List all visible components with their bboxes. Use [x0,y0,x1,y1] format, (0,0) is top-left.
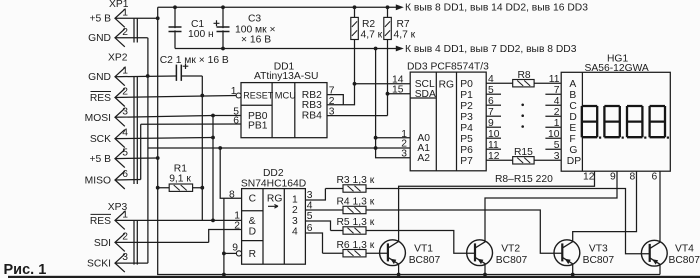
svg-text:R8–R15 220: R8–R15 220 [495,174,553,185]
svg-text:3: 3 [122,252,128,263]
svg-text:3: 3 [292,216,298,227]
svg-text:6: 6 [488,96,494,107]
svg-text:+5 В: +5 В [90,154,112,165]
svg-text:11: 11 [488,140,499,151]
svg-text:9: 9 [488,118,494,129]
svg-text:SCKI: SCKI [87,259,111,270]
svg-text:SN74HC164D: SN74HC164D [241,178,306,189]
svg-text:F: F [569,134,575,145]
svg-text:C: C [569,101,577,112]
svg-text:2: 2 [292,205,298,216]
svg-text:3: 3 [554,151,560,162]
svg-text:5: 5 [307,211,313,222]
svg-text:SA56-12GWA: SA56-12GWA [585,63,649,74]
svg-text:4: 4 [307,200,313,211]
svg-text:8: 8 [630,171,636,182]
svg-text:1: 1 [554,118,560,129]
svg-text:R3 1,3 к: R3 1,3 к [337,175,375,186]
svg-text:SCK: SCK [90,134,111,145]
svg-text:5: 5 [122,148,128,159]
svg-text:2: 2 [122,231,128,242]
svg-text:7: 7 [488,107,494,118]
svg-text:5: 5 [488,85,494,96]
svg-text:VT2: VT2 [501,243,520,254]
svg-text:P0: P0 [460,79,473,90]
svg-text:R15: R15 [514,147,533,158]
svg-text:RES: RES [90,93,111,104]
svg-text:G: G [569,145,577,156]
svg-text:К выв 4 DD1, выв 7 DD2, выв: К выв 4 DD1, выв 7 DD2, выв 8 DD3 [405,44,577,55]
svg-text:XP2: XP2 [108,53,128,64]
svg-text:P4: P4 [460,123,473,134]
svg-text:1: 1 [122,66,128,77]
svg-text:11: 11 [549,74,560,85]
svg-text:P3: P3 [460,112,473,123]
svg-text:B: B [569,90,576,101]
svg-text:R4 1,3 к: R4 1,3 к [337,197,375,208]
svg-text:E: E [569,123,576,134]
svg-text:4: 4 [488,74,494,85]
svg-text:C3: C3 [248,14,261,25]
svg-text:D: D [249,227,256,238]
svg-text:P5: P5 [460,134,473,145]
svg-text:A: A [569,79,576,90]
svg-text:DD2: DD2 [263,168,284,179]
svg-text:10: 10 [548,129,560,140]
svg-text:2: 2 [122,87,128,98]
svg-text:2: 2 [234,220,240,231]
svg-text:BC807: BC807 [409,255,441,266]
svg-text:DD3 PCF8574T/3: DD3 PCF8574T/3 [407,62,489,73]
svg-text:3: 3 [122,106,128,117]
svg-text:100 н: 100 н [188,29,214,40]
svg-text:К выв 8 DD1, выв 14 DD2, выв: К выв 8 DD1, выв 14 DD2, выв 16 DD3 [405,3,588,14]
svg-text:5: 5 [554,140,560,151]
svg-text:P2: P2 [460,101,473,112]
svg-text:P7: P7 [460,156,473,167]
svg-text:× 16 В: × 16 В [241,35,271,46]
svg-text:1: 1 [122,7,128,18]
svg-text:P1: P1 [460,90,473,101]
svg-text:R8: R8 [518,70,531,81]
svg-text:4: 4 [122,128,128,139]
svg-text:6: 6 [652,171,658,182]
svg-text:9: 9 [610,171,616,182]
svg-text:9,1 к: 9,1 к [169,174,191,185]
svg-text:A2: A2 [417,153,430,164]
svg-text:RB4: RB4 [302,111,322,122]
svg-text:2: 2 [122,27,128,38]
svg-text:3: 3 [307,190,313,201]
svg-text:12: 12 [583,171,595,182]
svg-text:VT3: VT3 [589,243,608,254]
svg-text:DP: DP [567,156,581,167]
svg-text:R7: R7 [397,19,410,30]
svg-text:RG: RG [439,80,454,91]
svg-text:PB1: PB1 [248,120,268,131]
svg-text:12: 12 [488,151,500,162]
svg-text:4,7 к: 4,7 к [361,30,383,41]
svg-text:MISO: MISO [85,176,111,187]
svg-text:9: 9 [232,243,238,254]
svg-text:8: 8 [229,190,235,201]
svg-text:R2: R2 [362,19,375,30]
svg-text:BC807: BC807 [669,255,700,266]
svg-text:4: 4 [554,96,560,107]
svg-text:7: 7 [554,85,560,96]
svg-text:+5 В: +5 В [90,14,112,25]
svg-text:4: 4 [292,227,298,238]
svg-text:6: 6 [307,223,313,234]
svg-text:P6: P6 [460,145,473,156]
svg-text:&: & [249,216,256,227]
svg-text:Рис. 1: Рис. 1 [4,262,47,278]
svg-text:GND: GND [88,33,111,44]
svg-text:4,7 к: 4,7 к [394,30,416,41]
svg-text:C: C [249,194,257,205]
svg-text:GND: GND [88,72,111,83]
svg-text:R6 1,3 к: R6 1,3 к [337,240,375,251]
svg-text:1: 1 [122,209,128,220]
svg-text:RB3: RB3 [302,100,322,111]
svg-text:2: 2 [329,96,335,107]
svg-text:10: 10 [488,129,500,140]
svg-text:3: 3 [329,107,335,118]
svg-text:SDA: SDA [415,89,436,100]
svg-text:3: 3 [401,149,407,160]
svg-text:C2 1 мк × 16 В: C2 1 мк × 16 В [160,55,229,66]
svg-text:RESET: RESET [243,90,274,100]
svg-text:6: 6 [233,115,239,126]
svg-text:VT4: VT4 [675,243,694,254]
svg-text:SDI: SDI [94,238,111,249]
svg-text:BC807: BC807 [583,255,615,266]
svg-text:6: 6 [122,169,128,180]
svg-text:MCU: MCU [275,90,296,100]
svg-text:R5 1,3 к: R5 1,3 к [337,217,375,228]
svg-text:15: 15 [392,84,404,95]
svg-text:VT1: VT1 [414,243,433,254]
svg-text:2: 2 [554,107,560,118]
svg-text:ATtiny13A-SU: ATtiny13A-SU [254,71,318,82]
svg-text:R: R [249,249,256,260]
svg-text:1: 1 [231,86,237,97]
svg-text:MOSI: MOSI [85,113,111,124]
svg-text:D: D [569,112,576,123]
svg-text:RES: RES [90,216,111,227]
svg-text:BC807: BC807 [496,255,528,266]
svg-text:RG: RG [267,194,282,205]
